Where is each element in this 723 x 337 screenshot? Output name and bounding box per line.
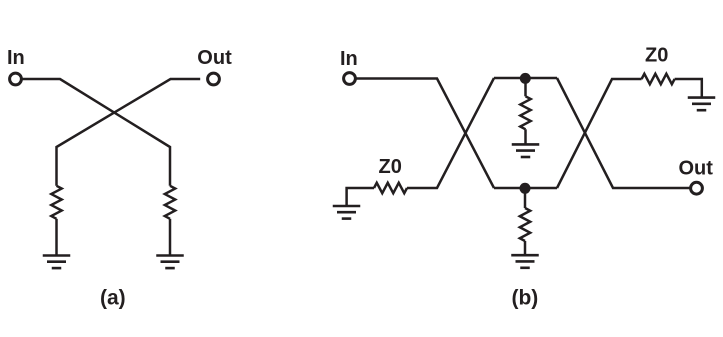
svg-text:(b): (b) [511,286,538,309]
svg-text:(a): (a) [100,286,126,309]
svg-text:In: In [340,48,358,70]
svg-text:In: In [7,47,25,69]
svg-text:Z0: Z0 [645,45,668,67]
svg-text:Z0: Z0 [379,156,402,178]
svg-text:Out: Out [679,158,714,180]
svg-text:Out: Out [197,47,232,69]
